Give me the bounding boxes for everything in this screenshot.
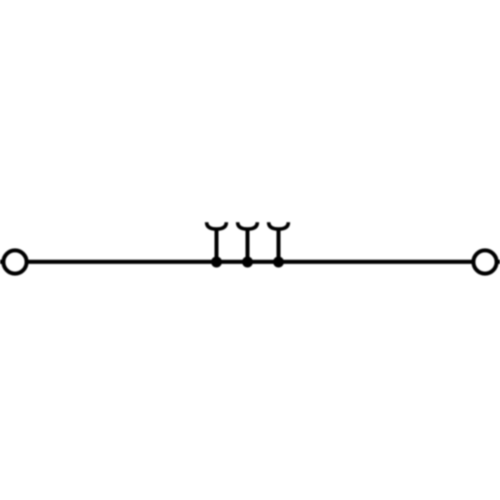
terminal circle right bbox=[473, 250, 496, 273]
test socket 1 bbox=[207, 222, 227, 262]
terminal circle left bbox=[3, 250, 26, 273]
junction dot 2 bbox=[242, 257, 253, 268]
junction dot 1 bbox=[211, 257, 222, 268]
wire bbox=[0, 260, 500, 264]
junction dot 3 bbox=[273, 257, 284, 268]
test socket 2 bbox=[238, 222, 258, 262]
test socket 3 bbox=[269, 222, 289, 262]
